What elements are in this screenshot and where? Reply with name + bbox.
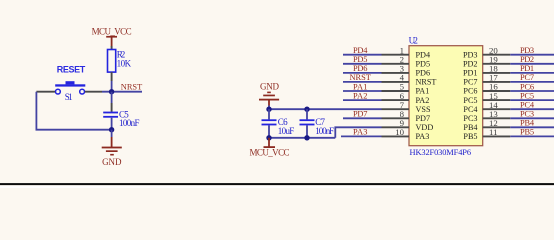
svg-text:PA2: PA2: [416, 96, 430, 105]
svg-text:11: 11: [489, 127, 497, 137]
sheet background: [0, 0, 554, 188]
wire net NRST (left): [343, 81, 382, 83]
svg-text:RESET: RESET: [57, 64, 86, 74]
svg-text:VDD: VDD: [416, 123, 434, 132]
capacitor C5: [103, 109, 139, 128]
svg-text:10uF: 10uF: [278, 126, 295, 136]
wire R2 to NRST junction: [111, 81, 113, 92]
svg-text:PC6: PC6: [463, 87, 477, 96]
pin 11 PB5: [463, 127, 510, 141]
wire net PA3 (left): [341, 135, 382, 137]
ground GND (middle, inverted): [259, 82, 280, 106]
pin 5 PA1: [382, 82, 430, 96]
svg-text:HK32F030MF4P6: HK32F030MF4P6: [410, 148, 472, 157]
pin 4 NRST: [382, 73, 437, 87]
wire net PC4 (right): [510, 108, 554, 110]
svg-text:PD2: PD2: [520, 55, 534, 64]
pin stub R2 top: [111, 46, 113, 50]
svg-text:VSS: VSS: [416, 105, 431, 114]
capacitor C7: [300, 117, 335, 136]
wire net PA2 (left): [343, 99, 382, 101]
svg-text:PC4: PC4: [520, 101, 535, 110]
switch S1: [55, 81, 85, 102]
svg-text:PA3: PA3: [416, 132, 430, 141]
pin 18 PD1: [463, 64, 510, 78]
wire net PB4 (right): [510, 126, 554, 128]
wire net PC6 (right): [510, 90, 554, 92]
wire S1 to NRST stub: [102, 91, 142, 93]
svg-text:10K: 10K: [117, 59, 132, 69]
svg-text:PD4: PD4: [353, 46, 368, 55]
junction rail C7 bottom: [304, 135, 309, 140]
svg-text:10: 10: [395, 127, 404, 137]
wire net PD1 (right): [510, 72, 554, 74]
junction rail C6 bottom: [266, 135, 271, 140]
svg-text:PD3: PD3: [463, 50, 478, 59]
wire junction to C5: [111, 92, 113, 103]
svg-text:PC4: PC4: [463, 105, 477, 114]
wire C6 top stub: [268, 109, 270, 119]
svg-text:PD1: PD1: [463, 69, 478, 78]
pin 7 VSS: [382, 100, 431, 114]
pin 9 VDD: [382, 118, 434, 132]
wire GND stem to rail: [268, 106, 270, 110]
svg-text:NRST: NRST: [416, 78, 437, 87]
svg-text:GND: GND: [102, 157, 122, 167]
power flag MCU_VCC (left): [92, 26, 132, 46]
wire net PD3 (right): [510, 54, 554, 56]
resistor R2: [108, 50, 132, 73]
svg-text:S1: S1: [65, 92, 73, 102]
svg-text:PC7: PC7: [520, 73, 534, 82]
wire net PB5 (right): [510, 135, 554, 137]
pin 3 PD6: [382, 64, 431, 78]
svg-text:PD4: PD4: [416, 50, 431, 59]
svg-text:PA3: PA3: [353, 128, 368, 137]
junction rail C7 top: [304, 107, 309, 112]
svg-text:PC5: PC5: [520, 91, 534, 100]
svg-text:PD6: PD6: [353, 64, 368, 73]
svg-text:GND: GND: [260, 82, 280, 92]
svg-text:U2: U2: [409, 36, 418, 46]
ground GND (left): [102, 137, 122, 167]
svg-text:PA2: PA2: [353, 91, 368, 100]
wire C7 bottom stub: [306, 125, 308, 137]
pin 10 PA3: [382, 127, 430, 141]
wire net PD5 (left): [343, 63, 382, 65]
pin 13 PC3: [463, 109, 510, 123]
wire C6 bottom stub: [268, 125, 270, 137]
svg-text:PD7: PD7: [353, 110, 368, 119]
sheet border line bottom: [0, 183, 554, 188]
power flag MCU_VCC (middle): [250, 138, 290, 158]
junction NRST node: [109, 89, 114, 94]
svg-text:100nF: 100nF: [119, 118, 140, 128]
svg-text:PA1: PA1: [353, 82, 368, 91]
svg-text:PD5: PD5: [353, 55, 368, 64]
wire net PA1 (left): [343, 90, 382, 92]
svg-text:PA1: PA1: [416, 87, 430, 96]
pin 19 PD2: [463, 55, 510, 69]
svg-text:PB5: PB5: [520, 128, 534, 137]
svg-text:PB5: PB5: [463, 132, 477, 141]
svg-text:PD6: PD6: [416, 69, 431, 78]
svg-text:PD3: PD3: [520, 46, 534, 55]
pin stub S1 left: [36, 91, 55, 93]
wire loop left vertical: [36, 92, 111, 130]
junction rail C6 top: [266, 107, 271, 112]
pin 20 PD3: [463, 45, 510, 59]
wire net PC5 (right): [510, 99, 554, 101]
svg-text:PD5: PD5: [416, 60, 431, 69]
wire junction to GND: [111, 130, 113, 137]
pin 1 PD4: [382, 45, 431, 59]
svg-text:PC5: PC5: [463, 96, 477, 105]
wire VSS rail: [269, 108, 382, 110]
svg-text:PC3: PC3: [520, 110, 534, 119]
pin 8 PD7: [382, 109, 431, 123]
svg-text:PC6: PC6: [520, 82, 534, 91]
svg-text:NRST: NRST: [121, 83, 142, 92]
svg-text:PD7: PD7: [416, 114, 431, 123]
wire net PD4 (left): [343, 54, 382, 56]
wire net PC3 (right): [510, 117, 554, 119]
pin 15 PC5: [463, 91, 510, 105]
junction C5/GND node: [109, 127, 114, 132]
pin stub S1 right: [85, 91, 102, 93]
IC U2 HK32F030MF4P6: [409, 36, 483, 158]
svg-text:PB4: PB4: [520, 119, 535, 128]
wire VDD jog: [335, 127, 381, 138]
pin 6 PA2: [382, 91, 430, 105]
wire net PD6 (left): [343, 72, 382, 74]
svg-text:NRST: NRST: [350, 73, 371, 82]
svg-text:PD1: PD1: [520, 64, 534, 73]
pin 14 PC4: [463, 100, 510, 114]
pin 12 PB4: [463, 118, 510, 132]
wire net PC7 (right): [510, 81, 554, 83]
wire VCC rail: [269, 137, 335, 139]
wire net PD2 (right): [510, 63, 554, 65]
svg-text:MCU_VCC: MCU_VCC: [92, 26, 132, 36]
svg-text:PD2: PD2: [463, 60, 478, 69]
pin stub R2 bottom: [111, 72, 113, 81]
pin 2 PD5: [382, 55, 431, 69]
wire C7 top stub: [306, 109, 308, 119]
pin 16 PC6: [463, 82, 510, 96]
svg-text:100nF: 100nF: [315, 126, 334, 136]
capacitor C6: [262, 117, 295, 136]
svg-text:PC3: PC3: [463, 114, 477, 123]
svg-text:PC7: PC7: [463, 78, 477, 87]
svg-text:PB4: PB4: [463, 123, 477, 132]
svg-text:MCU_VCC: MCU_VCC: [250, 147, 290, 157]
pin 17 PC7: [463, 73, 510, 87]
wire net PD7 (left): [343, 117, 382, 119]
pin stub C5 top: [111, 103, 113, 112]
wire C5 bottom to junction: [111, 118, 113, 130]
